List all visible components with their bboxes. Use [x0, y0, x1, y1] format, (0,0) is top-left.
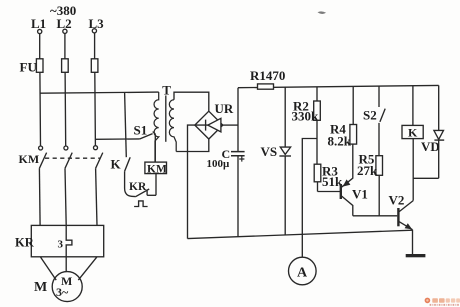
- svg-text:330k: 330k: [292, 109, 320, 124]
- resistor R1 body: [258, 84, 274, 89]
- transistor V1 arrow: [343, 179, 351, 186]
- svg-text:A: A: [297, 265, 308, 280]
- switch S1 hook: [153, 132, 156, 137]
- transformer T secondary winding: [169, 100, 176, 152]
- svg-text:R1470: R1470: [250, 68, 285, 83]
- switch K blade: [125, 157, 131, 171]
- svg-text:V2: V2: [389, 193, 405, 208]
- wire KR box to motor right: [78, 257, 97, 280]
- wire S2 to R5: [378, 123, 380, 156]
- svg-text:3~: 3~: [56, 285, 69, 299]
- svg-text:L3: L3: [89, 16, 105, 31]
- wire L3 contact to KR box: [96, 168, 97, 225]
- svg-text:KR: KR: [129, 181, 147, 193]
- svg-text:UR: UR: [215, 101, 234, 116]
- wire L3 to switch S1: [95, 138, 139, 140]
- transistor V2 collector lead: [399, 201, 413, 212]
- bridge rectifier UR diamond: [195, 111, 223, 139]
- watermark bottom dotted row: [430, 304, 459, 306]
- wire K to KR contact: [125, 171, 136, 196]
- svg-text:VS: VS: [261, 144, 278, 159]
- switch S2 blade: [380, 109, 385, 122]
- bridge diode inside: [195, 118, 223, 132]
- wire R3 to V1 base: [318, 191, 341, 193]
- zener VS cathode bar: [279, 155, 291, 157]
- terminal L2: [63, 29, 67, 33]
- svg-text:T: T: [162, 83, 171, 98]
- svg-text:KR: KR: [15, 236, 35, 250]
- watermark logo circle: [425, 298, 431, 304]
- resistor R2 body: [314, 101, 321, 120]
- terminal L3: [92, 29, 96, 33]
- svg-text:27k: 27k: [357, 163, 378, 178]
- svg-text:100μ: 100μ: [207, 158, 231, 170]
- terminal L1: [38, 29, 42, 33]
- svg-text:VD: VD: [421, 139, 440, 154]
- stray ink speck top right: [318, 11, 327, 14]
- wire KR box to motor left: [40, 257, 56, 280]
- motor M circle: [52, 272, 82, 302]
- contactor contact KM phase L2: [64, 146, 72, 168]
- wire C line (plus rail riser): [237, 88, 239, 237]
- wire R2-R3 junction to ammeter branch: [302, 139, 317, 258]
- wire KR contact to KM coil: [147, 194, 156, 196]
- svg-text:S1: S1: [134, 123, 148, 138]
- transistor V1 collector lead: [342, 144, 353, 187]
- transistor V2 arrow: [405, 223, 413, 229]
- relay contact KR (NC) blade: [135, 189, 149, 197]
- resistor R3 body: [314, 164, 321, 182]
- zener VS triangle: [280, 147, 290, 154]
- watermark text blocks: [432, 298, 460, 303]
- wire secondary bottom to bridge: [176, 139, 209, 152]
- svg-text:K: K: [408, 126, 418, 140]
- svg-text:3: 3: [58, 239, 64, 251]
- resistor R4 branch wire: [352, 86, 354, 124]
- diode VD triangle: [434, 130, 444, 139]
- resistor R4 body: [350, 125, 357, 145]
- relay coil K box: [402, 125, 423, 138]
- switch S2 branch wire: [378, 86, 380, 107]
- wire R5 to V2 base line: [378, 175, 380, 216]
- wire L1 to transformer primary top: [40, 92, 159, 93]
- wire bridge minus output down to bus: [188, 125, 195, 239]
- contactor contact KM phase L3: [94, 146, 103, 169]
- wire K branch from top rail: [125, 92, 127, 157]
- wire secondary top to bridge: [174, 92, 209, 111]
- wire L3 vertical: [94, 33, 97, 146]
- relay coil K branch wire: [412, 86, 414, 126]
- svg-text:FU: FU: [20, 60, 38, 75]
- contactor contact KM phase L1: [39, 146, 47, 168]
- fuse FU phase L1: [36, 59, 43, 73]
- coil KM box: [145, 162, 167, 174]
- wire L1 contact to KR box: [38, 168, 41, 225]
- ground symbol: [406, 254, 426, 257]
- svg-text:KM: KM: [147, 163, 167, 175]
- zener diode VS branch wire: [284, 87, 286, 235]
- wire K box to V2 collector: [412, 139, 414, 201]
- fuse FU phase L2: [62, 59, 69, 73]
- resistor R2 branch wire: [316, 87, 319, 192]
- svg-text:M: M: [34, 280, 47, 295]
- diode VD branch wire: [438, 85, 440, 178]
- thermal heater symbol under KR contact: [134, 201, 148, 207]
- diode VD cathode bar: [434, 139, 444, 141]
- wire L1 vertical: [39, 34, 42, 146]
- label plus polarity: [239, 156, 244, 161]
- transistor V2 base bar: [397, 208, 399, 226]
- wire L2 vertical: [64, 33, 67, 145]
- relay contact KR fixed tick: [146, 190, 148, 196]
- fuse FU phase L3: [91, 59, 98, 73]
- svg-text:V1: V1: [352, 187, 368, 202]
- wire KM coil top to S1 node: [154, 137, 156, 163]
- svg-text:KM: KM: [19, 152, 40, 166]
- transistor V1 emitter lead: [342, 196, 353, 216]
- transformer T primary winding: [154, 92, 159, 162]
- switch S1 blade: [140, 134, 153, 139]
- wire L2 contact to KR box: [65, 168, 66, 225]
- wire KM coil bottom: [155, 174, 157, 196]
- wire bottom bus: [188, 230, 413, 238]
- wire V1 emitter to V2 base: [353, 215, 398, 217]
- thermal relay KR box: [31, 225, 103, 256]
- wire K/VD junction horizontal: [413, 177, 439, 179]
- transistor V2 emitter lead: [399, 222, 412, 230]
- wire top rail: [238, 85, 439, 87]
- wire bridge plus output to C line: [223, 124, 238, 126]
- wire V2 emitter to ground: [412, 230, 414, 254]
- svg-text:S2: S2: [363, 108, 377, 123]
- thermal element symbol inside KR: [66, 225, 72, 256]
- wire KR box to motor middle: [65, 257, 67, 272]
- svg-text:K: K: [111, 157, 122, 172]
- svg-text:8.2k: 8.2k: [328, 134, 352, 149]
- ammeter A circle: [289, 257, 317, 285]
- svg-text:L1: L1: [31, 16, 46, 31]
- transformer T core: [165, 96, 167, 142]
- transistor V1 base bar: [340, 184, 342, 199]
- linkage dashed line KM contacts: [45, 157, 101, 159]
- resistor R5 body: [376, 156, 383, 176]
- capacitor C plates: [231, 152, 245, 156]
